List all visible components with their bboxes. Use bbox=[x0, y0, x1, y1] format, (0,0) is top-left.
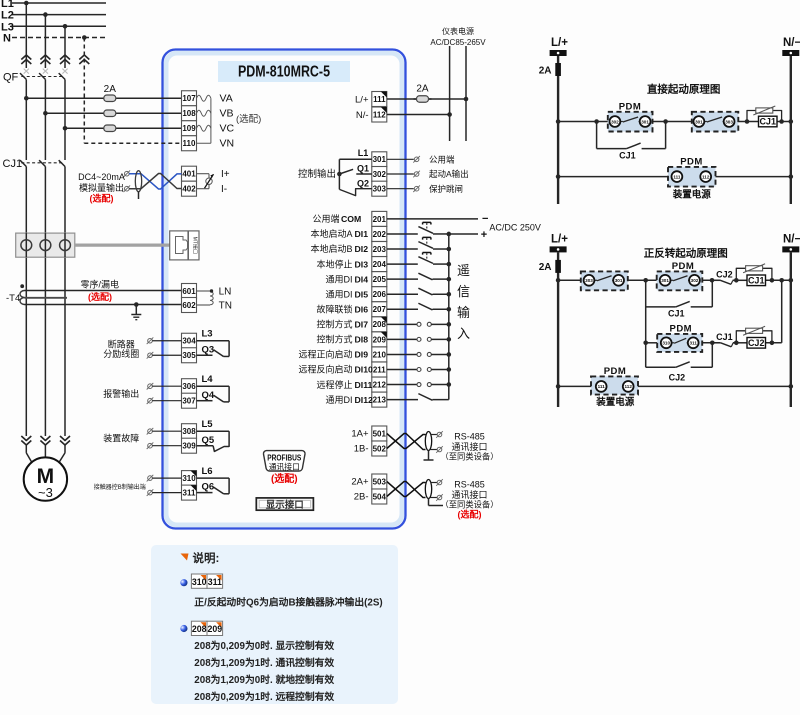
relay Q4 contact bbox=[197, 374, 230, 402]
terminal 203 bbox=[372, 242, 387, 257]
svg-text:控制方式: 控制方式 bbox=[316, 319, 352, 330]
svg-text:304: 304 bbox=[182, 337, 196, 346]
svg-text:2A: 2A bbox=[416, 84, 429, 95]
svg-text:装置电源: 装置电源 bbox=[672, 189, 712, 201]
svg-text:DI11: DI11 bbox=[355, 380, 373, 390]
svg-text:DI12: DI12 bbox=[355, 395, 374, 405]
svg-text:正反转起动原理图: 正反转起动原理图 bbox=[644, 247, 728, 260]
svg-text:112: 112 bbox=[373, 110, 386, 119]
svg-text:2A: 2A bbox=[104, 84, 117, 95]
terminal 201 bbox=[372, 211, 387, 226]
terminal 212 bbox=[372, 377, 387, 392]
net L3 bbox=[12, 25, 106, 27]
svg-text:分励线圈: 分励线圈 bbox=[103, 348, 139, 359]
svg-text:111: 111 bbox=[373, 95, 386, 104]
diagram1 L bus bbox=[557, 56, 559, 204]
RS485 pair 2 bbox=[387, 479, 443, 505]
svg-text:502: 502 bbox=[373, 444, 387, 453]
svg-text:LN: LN bbox=[219, 286, 232, 297]
svg-text:本地停止: 本地停止 bbox=[316, 258, 352, 269]
switch DI12 bbox=[387, 394, 449, 401]
link DI11 bbox=[387, 382, 451, 387]
terminal 503 bbox=[372, 474, 387, 489]
diagram1 PDM supply box bbox=[668, 157, 716, 187]
svg-text:208为0,209为1时. 远程控制有效: 208为0,209为1时. 远程控制有效 bbox=[194, 690, 334, 703]
wire L1 drop bbox=[25, 3, 27, 68]
svg-text:TN: TN bbox=[219, 300, 232, 311]
ground at 602 bbox=[131, 302, 141, 320]
zero-seq CT -T4 bbox=[6, 284, 182, 304]
diagram2 stop contact 303-301 bbox=[581, 271, 628, 290]
svg-text:公用端: 公用端 bbox=[312, 213, 339, 224]
relay Q6 contact bbox=[197, 466, 230, 494]
svg-text:L5: L5 bbox=[202, 419, 214, 430]
svg-text:2B-: 2B- bbox=[354, 492, 369, 503]
display port button bbox=[256, 498, 313, 511]
MT port connector bbox=[170, 231, 199, 260]
svg-text:207: 207 bbox=[373, 305, 387, 314]
PROFIBUS connector bbox=[263, 451, 305, 472]
svg-text:201: 201 bbox=[373, 215, 387, 224]
svg-text:本地启动B: 本地启动B bbox=[310, 243, 352, 254]
svg-text:远程反向启动: 远程反向启动 bbox=[298, 364, 352, 375]
terminal 108 bbox=[182, 106, 197, 121]
diagram2 L/+ busbar bbox=[550, 246, 567, 252]
svg-text:N/-: N/- bbox=[356, 110, 369, 121]
terminal 601 bbox=[182, 284, 197, 299]
diagram2 fuse 2A bbox=[555, 260, 561, 273]
terminal 310 bbox=[182, 471, 197, 486]
notes marker 说明 bbox=[181, 551, 220, 565]
link DI10 bbox=[387, 367, 451, 372]
terminal 301 bbox=[372, 152, 387, 167]
svg-text:保护跳闸: 保护跳闸 bbox=[429, 184, 463, 194]
svg-text:信: 信 bbox=[457, 284, 470, 299]
svg-text:DI4: DI4 bbox=[355, 274, 369, 284]
relay Q5 contact bbox=[197, 419, 230, 451]
switch DI6 bbox=[387, 303, 451, 311]
diagram1 CJ1 coil + varistor bbox=[747, 106, 782, 127]
svg-text:模拟量输出: 模拟量输出 bbox=[79, 182, 124, 193]
RS485 pair 1 bbox=[387, 431, 443, 460]
svg-text:503: 503 bbox=[373, 477, 387, 486]
svg-text:DC4~20mA: DC4~20mA bbox=[78, 172, 125, 182]
svg-text:302: 302 bbox=[691, 278, 699, 283]
svg-text:112: 112 bbox=[624, 384, 632, 389]
svg-text:输: 输 bbox=[457, 305, 470, 320]
svg-text:Q1: Q1 bbox=[357, 164, 369, 174]
svg-text:309: 309 bbox=[182, 442, 196, 451]
svg-text:Q5: Q5 bbox=[202, 435, 215, 446]
terminal 206 bbox=[372, 287, 387, 302]
svg-text:204: 204 bbox=[373, 260, 387, 269]
svg-text:111: 111 bbox=[673, 174, 681, 179]
terminal 211 bbox=[372, 362, 387, 377]
terminal 209 bbox=[372, 332, 387, 347]
svg-text:1A+: 1A+ bbox=[351, 429, 369, 440]
terminal 502 bbox=[372, 441, 387, 456]
svg-text:L/+: L/+ bbox=[551, 37, 568, 49]
svg-text:报警输出: 报警输出 bbox=[103, 388, 139, 399]
svg-text:311: 311 bbox=[208, 577, 222, 587]
svg-text:N/−: N/− bbox=[783, 37, 800, 49]
terminal 207 bbox=[372, 302, 387, 317]
svg-text:602: 602 bbox=[182, 301, 196, 310]
shunt symbol I+ I- bbox=[197, 174, 214, 189]
svg-text:208: 208 bbox=[373, 320, 387, 329]
svg-text:通讯接口: 通讯接口 bbox=[451, 441, 487, 452]
svg-text:(选配): (选配) bbox=[271, 472, 298, 485]
svg-text:L2: L2 bbox=[1, 10, 14, 22]
switch DI4 bbox=[387, 273, 451, 281]
svg-text:零序/漏电: 零序/漏电 bbox=[81, 278, 120, 289]
diagram2 L bus bbox=[557, 252, 559, 407]
svg-text:VC: VC bbox=[220, 123, 235, 135]
svg-text:CJ1: CJ1 bbox=[668, 308, 685, 318]
relay Q3 contact bbox=[197, 329, 230, 357]
svg-text:208为1,209为1时. 通讯控制有效: 208为1,209为1时. 通讯控制有效 bbox=[194, 656, 334, 669]
svg-text:N/−: N/− bbox=[783, 234, 800, 246]
svg-text:DI7: DI7 bbox=[355, 320, 369, 330]
svg-text:301: 301 bbox=[373, 155, 387, 164]
twisted pair DC4-20mA bbox=[124, 170, 182, 199]
svg-text:（至同类设备）: （至同类设备） bbox=[440, 452, 498, 462]
motor M bbox=[24, 445, 67, 501]
fuse FU2 bbox=[43, 110, 181, 117]
svg-text:308: 308 bbox=[182, 427, 196, 436]
svg-text:接触器控B制输出端: 接触器控B制输出端 bbox=[94, 483, 146, 491]
terminal 306 bbox=[182, 379, 197, 394]
note ref 208 209 bbox=[191, 621, 222, 635]
switch DI5 bbox=[387, 288, 451, 296]
svg-text:2A+: 2A+ bbox=[351, 477, 369, 488]
svg-text:311: 311 bbox=[689, 341, 697, 346]
diagram2 N bus bbox=[790, 252, 792, 407]
svg-text:209: 209 bbox=[207, 624, 222, 634]
terminal 213 bbox=[372, 392, 387, 407]
svg-text:MT接口: MT接口 bbox=[192, 237, 199, 254]
svg-text:通用DI: 通用DI bbox=[325, 289, 352, 299]
svg-text:装置电源: 装置电源 bbox=[595, 396, 635, 408]
svg-text:PDM: PDM bbox=[619, 102, 642, 113]
svg-text:CJ2: CJ2 bbox=[669, 373, 686, 383]
pushbutton DI3 bbox=[387, 252, 451, 266]
wires to 304 305 bbox=[147, 337, 182, 358]
CT secondary cable bbox=[75, 244, 171, 247]
svg-text:L/+: L/+ bbox=[551, 234, 568, 246]
svg-text:VB: VB bbox=[220, 108, 234, 120]
diagram2 CJ1 coil + varistor bbox=[736, 264, 772, 286]
diagram1 PDM start contact 302-301 bbox=[608, 102, 653, 132]
svg-text:I+: I+ bbox=[221, 169, 230, 180]
contactor CJ1 poles bbox=[3, 158, 66, 436]
svg-text:307: 307 bbox=[182, 397, 196, 406]
svg-text:PDM: PDM bbox=[669, 324, 692, 335]
svg-text:211: 211 bbox=[373, 365, 386, 374]
svg-text:起动A输出: 起动A输出 bbox=[429, 169, 469, 179]
svg-text:CJ1: CJ1 bbox=[619, 151, 636, 161]
svg-text:断路器: 断路器 bbox=[108, 338, 135, 349]
svg-text:控制方式: 控制方式 bbox=[316, 334, 352, 345]
svg-text:112: 112 bbox=[702, 174, 710, 179]
svg-text:说明:: 说明: bbox=[193, 551, 220, 565]
device title bbox=[218, 61, 350, 82]
diagram1 CJ1 holding contact bbox=[597, 122, 666, 161]
breaker QF bbox=[3, 69, 68, 160]
terminal 302 bbox=[372, 167, 387, 182]
terminal 501 bbox=[372, 426, 387, 441]
svg-text:CJ1: CJ1 bbox=[3, 158, 23, 170]
svg-text:205: 205 bbox=[373, 275, 387, 284]
terminal 311 bbox=[182, 485, 197, 500]
svg-text:L3: L3 bbox=[1, 21, 14, 33]
svg-text:L1: L1 bbox=[358, 148, 369, 158]
svg-text:COM: COM bbox=[341, 214, 361, 224]
diagram1 fuse 2A bbox=[555, 63, 561, 76]
svg-text:AC/DC85-265V: AC/DC85-265V bbox=[430, 38, 486, 47]
svg-text:远程停止: 远程停止 bbox=[316, 379, 352, 390]
svg-text:(选配): (选配) bbox=[236, 113, 261, 125]
svg-text:远程正向启动: 远程正向启动 bbox=[298, 349, 352, 360]
svg-text:2A: 2A bbox=[539, 66, 552, 77]
net N bbox=[12, 37, 106, 39]
svg-text:CJ2: CJ2 bbox=[716, 270, 733, 280]
svg-text:208为1,209为0时. 就地控制有效: 208为1,209为0时. 就地控制有效 bbox=[194, 673, 334, 686]
link DI8 bbox=[387, 337, 451, 342]
svg-text:CJ1: CJ1 bbox=[759, 117, 776, 127]
svg-text:1B-: 1B- bbox=[354, 444, 369, 455]
fuse FU1 2A bbox=[24, 84, 182, 102]
svg-text:208为0,209为0时. 显示控制有效: 208为0,209为0时. 显示控制有效 bbox=[194, 639, 334, 652]
svg-text:通讯接口: 通讯接口 bbox=[269, 461, 300, 471]
wire L2 drop bbox=[44, 15, 46, 68]
pushbutton DI1 bbox=[387, 222, 478, 236]
diagram1 device supply row bbox=[556, 174, 793, 179]
svg-text:303: 303 bbox=[585, 278, 593, 283]
diagram1 N bus bbox=[790, 56, 792, 204]
svg-text:DI1: DI1 bbox=[355, 229, 369, 239]
svg-text:遥: 遥 bbox=[457, 263, 470, 278]
control output bracket bbox=[337, 159, 372, 195]
wire N to 110 bbox=[84, 142, 181, 144]
svg-text:VA: VA bbox=[220, 93, 233, 105]
svg-text:213: 213 bbox=[373, 396, 387, 405]
svg-text:Q6: Q6 bbox=[202, 482, 215, 493]
LN TN coil bbox=[197, 289, 214, 305]
svg-text:310: 310 bbox=[192, 577, 207, 587]
svg-text:仪表电源: 仪表电源 bbox=[442, 26, 474, 36]
svg-text:Q2: Q2 bbox=[357, 178, 369, 188]
drawout contacts top bbox=[21, 55, 89, 64]
svg-text:305: 305 bbox=[182, 351, 196, 360]
diagram2 N/- busbar bbox=[782, 246, 799, 252]
svg-text:2A: 2A bbox=[539, 262, 552, 273]
svg-text:L/+: L/+ bbox=[355, 94, 369, 105]
pushbutton DI2 bbox=[387, 237, 451, 251]
svg-text:210: 210 bbox=[373, 350, 387, 359]
svg-text:DI3: DI3 bbox=[355, 259, 369, 269]
svg-text:Q4: Q4 bbox=[202, 390, 215, 401]
device outline PDM-810MRC-5 bbox=[163, 50, 406, 529]
svg-text:装置故障: 装置故障 bbox=[103, 433, 139, 444]
note bullet 2 bbox=[180, 625, 187, 632]
svg-text:(选配): (选配) bbox=[458, 508, 482, 519]
svg-text:107: 107 bbox=[182, 94, 196, 103]
svg-text:303: 303 bbox=[725, 119, 733, 124]
svg-text:DI6: DI6 bbox=[355, 304, 369, 314]
svg-text:RS-485: RS-485 bbox=[454, 480, 485, 490]
svg-text:正/反起动时Q6为启动B接触器脉冲输出(2S): 正/反起动时Q6为启动B接触器脉冲输出(2S) bbox=[194, 596, 382, 609]
note bullet 1 bbox=[180, 579, 187, 586]
net L2 bbox=[12, 14, 106, 16]
svg-text:402: 402 bbox=[182, 185, 196, 194]
diagram2 right riser bbox=[781, 280, 783, 343]
svg-text:L1: L1 bbox=[1, 0, 14, 10]
svg-text:DI8: DI8 bbox=[355, 335, 369, 345]
svg-text:302: 302 bbox=[373, 170, 387, 179]
svg-text:(选配): (选配) bbox=[88, 291, 112, 302]
wires to 306 307 bbox=[147, 383, 182, 404]
terminal 602 bbox=[182, 298, 197, 313]
wire L3 drop bbox=[64, 26, 66, 68]
svg-text:PDM: PDM bbox=[672, 261, 695, 272]
svg-text:208: 208 bbox=[192, 624, 207, 634]
terminal 304 bbox=[182, 333, 197, 348]
terminal 308 bbox=[182, 424, 197, 439]
svg-text:303: 303 bbox=[373, 185, 387, 194]
diagram2 CJ1 holding contact bbox=[646, 280, 713, 318]
terminal 210 bbox=[372, 347, 387, 362]
svg-text:111: 111 bbox=[598, 384, 606, 389]
diagram2 PDM rev contact 310-311 bbox=[657, 324, 702, 352]
diagram2 row1 wire bbox=[556, 278, 793, 284]
terminal 109 bbox=[182, 121, 197, 136]
svg-text:CJ1: CJ1 bbox=[748, 276, 765, 286]
svg-text:212: 212 bbox=[373, 380, 387, 389]
notes panel bbox=[151, 545, 398, 704]
svg-text:AC/DC 250V: AC/DC 250V bbox=[489, 223, 541, 233]
svg-text:通用DI: 通用DI bbox=[325, 395, 352, 405]
svg-text:−: − bbox=[482, 213, 488, 225]
svg-text:209: 209 bbox=[373, 335, 387, 344]
svg-text:DI10: DI10 bbox=[355, 365, 374, 375]
diagram2 row2 wire bbox=[643, 341, 781, 347]
svg-text:公用端: 公用端 bbox=[429, 155, 455, 165]
svg-text:L6: L6 bbox=[202, 466, 213, 477]
svg-text:310: 310 bbox=[182, 474, 196, 483]
svg-text:PDM: PDM bbox=[680, 157, 703, 168]
svg-text:108: 108 bbox=[182, 109, 196, 118]
terminal 111 bbox=[372, 92, 387, 107]
svg-text:L3: L3 bbox=[202, 329, 213, 340]
svg-text:N: N bbox=[3, 33, 11, 45]
svg-text:311: 311 bbox=[183, 489, 196, 498]
diagram2 device supply row bbox=[556, 384, 793, 389]
drawout contacts bottom bbox=[21, 436, 70, 445]
svg-text:DI5: DI5 bbox=[355, 289, 369, 299]
svg-text:Q3: Q3 bbox=[202, 345, 215, 356]
diagram1 start row wire bbox=[556, 119, 793, 124]
svg-text:L4: L4 bbox=[202, 374, 214, 385]
svg-text:PROFIBUS: PROFIBUS bbox=[267, 453, 301, 462]
svg-text:302: 302 bbox=[611, 119, 619, 124]
wires 301-303 to ring lugs bbox=[387, 156, 420, 192]
svg-text:PDM-810MRC-5: PDM-810MRC-5 bbox=[238, 64, 330, 81]
analog output terminals 401 402 bbox=[182, 166, 197, 181]
svg-text:DI2: DI2 bbox=[355, 244, 369, 254]
svg-text:控制输出: 控制输出 bbox=[298, 168, 336, 180]
diagram1 N/- busbar bbox=[782, 50, 799, 56]
svg-text:310: 310 bbox=[662, 341, 670, 346]
svg-text:+: + bbox=[481, 229, 487, 241]
DI common wire 201 bbox=[387, 213, 489, 225]
terminal 110 bbox=[182, 136, 197, 151]
svg-text:QF: QF bbox=[3, 72, 19, 84]
diagram2 CJ2 coil + varistor bbox=[736, 326, 772, 348]
link DI9 bbox=[387, 352, 451, 357]
diagram1 L/+ busbar bbox=[550, 50, 567, 56]
svg-text:本地启动A: 本地启动A bbox=[310, 228, 352, 239]
diagram2 PDM fwd contact 301-302 bbox=[657, 261, 703, 290]
svg-text:203: 203 bbox=[373, 245, 387, 254]
svg-text:501: 501 bbox=[373, 429, 387, 438]
fuse FU3 bbox=[63, 125, 182, 132]
svg-text:301: 301 bbox=[615, 278, 623, 283]
link DI7 bbox=[387, 322, 451, 327]
terminal 305 bbox=[182, 348, 197, 363]
svg-text:RS-485: RS-485 bbox=[454, 432, 485, 442]
svg-text:通讯接口: 通讯接口 bbox=[451, 489, 487, 500]
svg-text:(选配): (选配) bbox=[90, 193, 114, 204]
terminal 107 bbox=[182, 91, 197, 106]
svg-text:CJ2: CJ2 bbox=[748, 338, 765, 348]
svg-text:VN: VN bbox=[220, 138, 235, 150]
svg-text:301: 301 bbox=[695, 119, 703, 124]
diagram1 stop contact 301-303 bbox=[692, 112, 739, 132]
svg-text:206: 206 bbox=[373, 290, 387, 299]
terminal 309 bbox=[182, 438, 197, 453]
diagram2 trunk bbox=[645, 280, 647, 367]
PT coils VA VB VC bbox=[197, 95, 211, 143]
svg-text:I-: I- bbox=[221, 184, 227, 195]
terminal 208 bbox=[372, 317, 387, 332]
terminal 205 bbox=[372, 272, 387, 287]
diagram2 CJ2 holding contact bbox=[646, 343, 713, 383]
svg-text:202: 202 bbox=[373, 230, 387, 239]
svg-text:故障联锁: 故障联锁 bbox=[316, 303, 352, 314]
svg-text:直接起动原理图: 直接起动原理图 bbox=[647, 83, 721, 96]
svg-text:-T4: -T4 bbox=[6, 293, 20, 304]
terminal 204 bbox=[372, 257, 387, 272]
svg-text:301: 301 bbox=[661, 278, 669, 283]
wire N drop bbox=[83, 38, 85, 144]
wire 112 bbox=[387, 112, 452, 117]
svg-text:通用DI: 通用DI bbox=[325, 274, 352, 284]
terminal 112 bbox=[372, 107, 387, 122]
wires to 308 309 bbox=[147, 428, 182, 449]
svg-text:109: 109 bbox=[182, 124, 196, 133]
svg-text:306: 306 bbox=[182, 382, 196, 391]
svg-text:显示接口: 显示接口 bbox=[266, 499, 304, 511]
svg-text:CJ1: CJ1 bbox=[716, 332, 733, 342]
svg-text:110: 110 bbox=[183, 139, 196, 148]
svg-text:401: 401 bbox=[182, 170, 196, 179]
svg-text:504: 504 bbox=[373, 492, 387, 501]
svg-text:601: 601 bbox=[182, 287, 196, 296]
svg-text:DI9: DI9 bbox=[355, 350, 369, 360]
diagram2 PDM supply box bbox=[591, 366, 638, 394]
svg-text:301: 301 bbox=[641, 119, 649, 124]
